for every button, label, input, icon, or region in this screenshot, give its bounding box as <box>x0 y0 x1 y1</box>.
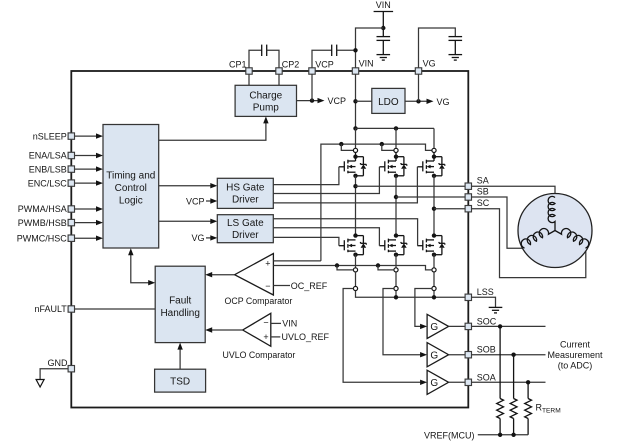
wire OCP output to fault handling <box>205 272 234 277</box>
svg-text:nSLEEP: nSLEEP <box>33 131 67 141</box>
op-amp current sense SOB <box>427 343 449 367</box>
svg-text:Logic: Logic <box>119 195 143 206</box>
svg-text:CP2: CP2 <box>282 59 300 69</box>
wire nSLEEP to control logic <box>75 133 104 138</box>
svg-text:Charge: Charge <box>249 90 282 101</box>
wire LDO output / node VG <box>405 74 450 107</box>
wire TSD to fault handling <box>177 343 182 370</box>
wire SOC amp output <box>449 325 466 327</box>
svg-text:VCP: VCP <box>186 196 205 206</box>
node VIN sense input <box>271 319 297 329</box>
pin PWMB/HSB <box>18 218 75 228</box>
wire control logic to charge pump <box>159 116 269 140</box>
wire SOA output <box>472 380 546 384</box>
ground VG cap <box>449 54 463 56</box>
wire PWMA/HSA to control logic <box>75 206 104 211</box>
svg-text:(to ADC): (to ADC) <box>558 360 593 370</box>
svg-text:G: G <box>430 322 438 333</box>
block Fault Handling <box>155 266 205 342</box>
pin VCP <box>309 59 334 74</box>
wire LSS to ground <box>472 297 496 307</box>
wire sense tap phase C to SOC amp <box>415 289 432 327</box>
op-amp current sense SOA <box>427 370 449 394</box>
pin SA <box>465 176 489 190</box>
svg-text:SOB: SOB <box>477 345 496 355</box>
wire SA to motor <box>472 186 556 197</box>
pin ENA/LSA <box>29 151 75 161</box>
node gate terminal HS 3 <box>433 128 435 148</box>
wire control logic to HS gate driver <box>159 183 218 188</box>
pin GND <box>48 358 75 372</box>
svg-text:VG: VG <box>437 97 450 107</box>
svg-text:LSS: LSS <box>477 287 494 297</box>
wire phase column A <box>355 176 357 236</box>
svg-text:Measurement: Measurement <box>547 350 603 360</box>
op-amp OCP comparator <box>235 254 274 296</box>
wire VG pin to VG cap <box>419 28 456 71</box>
svg-text:Fault: Fault <box>169 295 191 306</box>
svg-text:SA: SA <box>477 176 489 186</box>
pin PWMC/HSC <box>17 233 75 243</box>
wire HS driver output C <box>273 167 417 203</box>
svg-text:Driver: Driver <box>232 194 259 205</box>
block LS Gate Driver <box>217 215 273 243</box>
svg-text:−: − <box>265 281 270 291</box>
pin nSLEEP <box>33 131 75 141</box>
svg-text:CP1: CP1 <box>229 59 247 69</box>
svg-text:+: + <box>265 259 270 269</box>
svg-text:VG: VG <box>423 59 436 69</box>
pin SOC <box>465 316 497 329</box>
wire charge pump output / node VCP <box>297 74 347 106</box>
wire sense tap phase A to SOA amp <box>343 289 420 383</box>
wire SOA amp output <box>449 381 466 383</box>
wire VIN bridge rail <box>356 126 435 130</box>
wire LSS rail <box>356 291 466 300</box>
wire HS gate bus <box>321 142 432 261</box>
resistor RTERM 1 <box>497 326 504 434</box>
svg-text:GND: GND <box>48 358 69 368</box>
pin VG <box>415 59 435 75</box>
svg-text:VIN: VIN <box>376 0 391 10</box>
node UVLO_REF <box>271 332 330 342</box>
ground earth symbol <box>36 380 44 388</box>
block U1 Timing and Control Logic <box>103 125 159 249</box>
label current measurement <box>547 339 603 370</box>
block HS Gate Driver <box>217 178 273 208</box>
node sense terminals phase A <box>353 255 357 291</box>
svg-text:UVLO_REF: UVLO_REF <box>282 332 330 342</box>
svg-text:SB: SB <box>477 186 489 196</box>
wire net SA <box>353 184 465 188</box>
wire SOB output <box>472 353 546 357</box>
wire LS driver output 3 <box>274 237 339 245</box>
svg-text:TSD: TSD <box>170 377 190 388</box>
node OC_REF <box>273 281 327 291</box>
capacitor VG bypass <box>449 37 463 55</box>
svg-text:UVLO Comparator: UVLO Comparator <box>223 350 296 360</box>
pin CP1 <box>229 59 252 74</box>
pin nFAULT <box>34 304 74 314</box>
wire PWMB/HSB to control logic <box>75 220 104 225</box>
svg-text:Pump: Pump <box>253 102 280 113</box>
wire fault handling to control logic (bidirectional) <box>128 248 155 285</box>
wire PWMC/HSC to control logic <box>75 236 104 241</box>
wire LS driver output 2 <box>274 228 380 246</box>
wire CP1 to charge pump <box>248 74 250 85</box>
capacitor VCP-VIN <box>312 45 358 71</box>
svg-text:SOA: SOA <box>477 372 496 382</box>
svg-text:VCP: VCP <box>315 59 334 69</box>
capacitor CP1-CP2 flying cap <box>249 45 279 71</box>
svg-text:+: + <box>263 332 268 342</box>
node gate terminal HS 2 <box>395 128 397 148</box>
svg-text:VIN: VIN <box>282 319 297 329</box>
pin ENC/LSC <box>28 178 75 188</box>
svg-text:ENA/LSA: ENA/LSA <box>29 151 67 161</box>
wire VIN pin down to bridge rail <box>353 74 357 130</box>
op-amp current sense SOC <box>427 314 449 338</box>
ground LSS <box>489 306 503 308</box>
svg-text:LDO: LDO <box>378 97 399 108</box>
op-amp UVLO comparator <box>243 313 271 346</box>
node sense terminals phase C <box>432 255 436 291</box>
svg-text:OCP Comparator: OCP Comparator <box>225 296 293 306</box>
pin LSS <box>465 287 494 301</box>
wire VIN supply to VIN pin <box>356 28 384 71</box>
svg-text:SC: SC <box>477 198 490 208</box>
svg-text:OC_REF: OC_REF <box>291 281 328 291</box>
wire UVLO output to fault handling <box>205 327 243 332</box>
wire phase column B <box>395 176 397 236</box>
wire OCP sense bus to source terminals <box>273 263 432 270</box>
svg-text:PWMA/HSA: PWMA/HSA <box>18 204 67 214</box>
transistor LS FET A <box>339 245 344 247</box>
svg-text:ENB/LSB: ENB/LSB <box>29 164 67 174</box>
resistor RTERM 3 <box>525 382 532 435</box>
node VREF(MCU) <box>424 430 528 440</box>
svg-text:SOC: SOC <box>477 316 497 326</box>
block LDO <box>372 88 405 113</box>
svg-text:VCP: VCP <box>328 96 347 106</box>
svg-text:Handling: Handling <box>160 308 199 319</box>
pin ENB/LSB <box>29 164 75 174</box>
resistor RTERM 2 <box>510 355 517 435</box>
svg-text:G: G <box>430 378 438 389</box>
capacitor VIN bypass <box>377 37 391 55</box>
svg-text:VG: VG <box>191 233 204 243</box>
wire phase column C <box>433 176 435 236</box>
pin PWMA/HSA <box>18 204 75 214</box>
wire net SC <box>432 207 465 211</box>
svg-text:−: − <box>263 317 268 327</box>
node gate terminal HS 1 <box>355 128 357 148</box>
wire nFAULT to fault handling <box>75 308 156 310</box>
pin CP2 <box>276 59 300 74</box>
pin SB <box>465 186 489 200</box>
pin SC <box>465 198 490 212</box>
block Charge Pump <box>235 85 296 116</box>
wire LDO input <box>356 100 372 102</box>
wire SC to motor <box>472 209 586 278</box>
svg-text:nFAULT: nFAULT <box>34 304 67 314</box>
supply VIN <box>374 0 394 36</box>
transistor HS FET A <box>339 153 366 179</box>
pin SOB <box>465 345 496 358</box>
wire ENB/LSB to control logic <box>75 166 104 171</box>
wire SOB amp output <box>449 354 466 356</box>
node VG input to LS driver <box>191 233 217 243</box>
wire sense tap phase B to SOB amp <box>383 289 421 355</box>
transistor LS FET C <box>417 245 422 247</box>
svg-text:Current: Current <box>560 339 591 349</box>
pin VIN <box>352 59 373 75</box>
wire OCP sense bus upper <box>273 260 321 262</box>
svg-text:G: G <box>430 350 438 361</box>
wire ENC/LSC to control logic <box>75 180 104 185</box>
node sense terminals phase B <box>394 255 398 291</box>
motor M1 <box>518 194 592 268</box>
svg-text:VIN: VIN <box>359 59 374 69</box>
transistor HS FET C <box>417 153 444 179</box>
wire SOC output <box>472 324 546 328</box>
transistor LS FET B <box>379 245 384 247</box>
wire SB to motor <box>472 197 523 248</box>
wire GND pin to earth <box>40 369 68 380</box>
pin SOA <box>465 372 496 385</box>
ground VIN cap <box>377 54 391 56</box>
svg-text:Control: Control <box>115 183 147 194</box>
svg-text:PWMB/HSB: PWMB/HSB <box>18 218 67 228</box>
transistor HS FET B <box>379 153 406 179</box>
svg-text:PWMC/HSC: PWMC/HSC <box>17 233 67 243</box>
block TSD <box>155 369 206 392</box>
svg-text:VREF(MCU): VREF(MCU) <box>424 430 475 440</box>
svg-text:ENC/LSC: ENC/LSC <box>28 178 68 188</box>
device outline box <box>71 71 468 408</box>
wire HS driver output B <box>273 167 379 194</box>
svg-text:Timing and: Timing and <box>106 170 155 181</box>
wire LS driver output 1 <box>274 219 418 246</box>
node VCP input to HS driver <box>186 196 217 206</box>
wire ENA/LSA to control logic <box>75 153 104 158</box>
wire HS driver output A <box>273 167 339 185</box>
wire CP2 to charge pump <box>278 74 280 85</box>
svg-text:Driver: Driver <box>232 230 259 241</box>
svg-text:HS Gate: HS Gate <box>226 182 265 193</box>
wire net SB <box>394 195 465 199</box>
wire control logic to LS gate driver <box>159 219 218 224</box>
svg-text:LS Gate: LS Gate <box>227 218 264 229</box>
